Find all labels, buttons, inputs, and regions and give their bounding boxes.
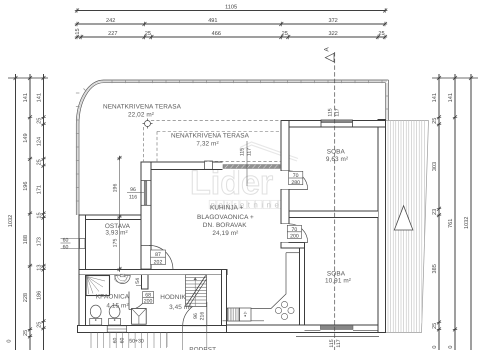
door label 87/202 [151,250,166,265]
terrace drain point [143,119,153,129]
svg-text:60: 60 [63,244,69,250]
svg-text:303: 303 [432,162,438,171]
wall soba west mid [281,190,289,224]
wall kitchen-soba divider [300,248,305,325]
svg-text:149: 149 [23,133,29,142]
room label terasa 7 [171,133,250,148]
svg-text:3,45 m²: 3,45 m² [169,304,191,311]
svg-text:0: 0 [7,339,13,342]
svg-text:KPAONICA: KPAONICA [96,293,130,300]
window kitchen west 96/116 [141,181,151,206]
window soba north 115/117 [321,120,352,127]
svg-text:70: 70 [292,227,298,233]
entry steps hatch [91,333,167,348]
svg-text:25: 25 [36,159,42,165]
dim chain left total 1032 [7,74,49,350]
terrace railing right segment [385,80,389,120]
hatched pergola strip right side [386,121,429,333]
svg-text:761: 761 [448,219,454,228]
svg-text:186: 186 [36,291,42,300]
wall ostava north [79,215,141,219]
dim chain top row2 242/491/372 [75,18,387,26]
window kitchen north [223,161,281,170]
svg-text:96: 96 [130,187,136,193]
shower tray [86,276,110,296]
svg-text:NENATKRIVENA TERASA: NENATKRIVENA TERASA [103,103,182,110]
svg-text:196: 196 [112,184,118,193]
terrace railing gap segments [76,80,382,201]
toilet 1 [90,305,102,325]
interior dim line 196/175 [112,156,121,272]
svg-text:117: 117 [247,148,253,156]
svg-text:466: 466 [212,31,221,37]
svg-text:188: 188 [23,235,29,244]
door label 70/280 [289,171,303,186]
svg-text:4,15 m²: 4,15 m² [106,303,128,310]
room label hodnik [160,294,191,311]
svg-text:0: 0 [432,345,438,348]
watermark text nekretnine [209,200,285,209]
svg-text:322: 322 [328,31,337,37]
svg-text:115: 115 [329,339,335,347]
pier column on north wall [205,161,213,169]
wall bath-hall north [79,270,227,275]
svg-text:70: 70 [293,173,299,179]
svg-text:60: 60 [113,338,119,344]
svg-text:216: 216 [199,312,205,321]
wall west exterior [79,215,86,333]
room label kupaonica [96,293,130,309]
door label 68/200 [143,292,154,305]
svg-text:HODNIK: HODNIK [160,294,186,301]
room label ostava [105,223,131,237]
terrace dashed boundary [144,120,281,161]
label 60/60 ostava window [61,238,71,251]
svg-text:141: 141 [432,93,438,102]
svg-text:0: 0 [448,345,454,348]
svg-text:25: 25 [36,118,42,124]
svg-text:23: 23 [432,209,438,215]
soba north window label 115/117 [328,108,341,116]
toilet 2 [109,305,121,325]
shower tray 2 Y-drain [132,308,147,324]
hob burners [275,301,294,319]
kitchen sink unit [228,308,252,321]
room label podest [189,347,216,350]
dim chain right col1 141/25/303/23/385/25 [432,74,478,350]
svg-text:NENATKRIVENA TERASA: NENATKRIVENA TERASA [171,133,250,140]
svg-text:372: 372 [328,18,337,24]
dim chain left col3 detail [36,74,45,350]
room label soba 9.63 [326,149,348,163]
dim chain top row3 15/227/25/466/25/322/25 [75,28,387,39]
section marker A top [324,47,335,62]
svg-text:227: 227 [108,31,117,37]
door bath 68/200 arc [129,292,147,310]
svg-text:141: 141 [23,93,29,102]
svg-text:116: 116 [129,194,137,200]
soba south window label 115/117 [329,339,342,347]
room label soba 10.91 [325,271,351,285]
window bath south 60 [107,326,126,332]
svg-text:202: 202 [154,259,163,265]
svg-text:87: 87 [155,252,161,258]
svg-text:385: 385 [432,264,438,273]
svg-text:173: 173 [36,237,42,246]
svg-text:280: 280 [291,180,300,186]
door label 70/200 [287,225,301,239]
svg-text:SOBA: SOBA [327,271,346,278]
svg-text:BLAGOVAONICA +: BLAGOVAONICA + [197,214,254,221]
svg-text:117: 117 [336,339,342,347]
svg-text:60: 60 [120,338,126,344]
svg-text:141: 141 [448,93,454,102]
wall between soba rooms [289,211,378,217]
room label kuhinja [197,205,254,238]
window soba south 115/117 [296,325,379,336]
window ostava west 60/60 [61,239,86,249]
svg-text:25: 25 [36,322,42,328]
svg-text:96: 96 [193,313,199,319]
svg-text:15: 15 [36,212,42,218]
svg-text:DN. BORAVAK: DN. BORAVAK [203,222,247,229]
kitchen counter outline [223,253,300,321]
wall jog piece [281,243,305,249]
wall south exterior right [227,325,386,333]
wall kitchen north [141,162,284,169]
svg-text:242: 242 [106,18,115,24]
room label terasa 22 [103,103,182,118]
watermark logo text Lider [190,164,273,202]
svg-text:60: 60 [63,238,69,244]
wall east exterior [378,120,385,333]
bath sink [115,274,131,283]
svg-text:1105: 1105 [225,4,237,10]
svg-text:141: 141 [36,93,42,102]
terrace railing outline [76,80,388,215]
svg-text:PODEST: PODEST [189,347,216,350]
podest landing edges [167,333,207,350]
svg-text:50+30: 50+30 [129,339,144,345]
kitchen window label 115/117 [240,141,253,186]
svg-text:1032: 1032 [8,215,14,227]
svg-text:24,19 m²: 24,19 m² [212,230,238,237]
svg-text:A: A [324,47,331,52]
wall soba west upper [281,121,289,171]
svg-text:200: 200 [290,234,299,240]
svg-text:25: 25 [378,31,384,37]
svg-text:228: 228 [23,293,29,302]
svg-text:68: 68 [145,293,151,299]
svg-text:22,02 m²: 22,02 m² [128,111,154,118]
window label 96/116 [127,187,144,200]
dim label 54 [135,278,142,286]
wall hall-kitchen divider [222,270,227,326]
dim chain right col2 141/761 [448,74,457,350]
section line A-A [334,52,336,350]
door kitchen 87/202 arc [141,245,173,269]
svg-text:25: 25 [145,31,151,37]
svg-text:115: 115 [240,148,246,156]
svg-text:196: 196 [23,181,29,190]
label 60 60 bath window [113,338,126,344]
svg-text:25: 25 [432,323,438,329]
door soba upper 70/280 arc [282,171,308,190]
svg-text:KUHINJA +: KUHINJA + [210,205,244,212]
svg-text:124: 124 [36,137,42,146]
svg-text:491: 491 [208,18,217,24]
dim chain top total 1105 [75,4,388,12]
svg-text:25: 25 [23,330,29,336]
svg-text:175: 175 [112,239,118,248]
wall south exterior left [78,326,228,333]
door soba lower 70/200 arc [282,224,308,243]
wall kitchen west [141,162,151,270]
svg-text:171: 171 [36,185,42,194]
svg-text:54: 54 [135,278,141,284]
entrance door 96/216 arc [183,302,207,332]
svg-text:10,91 m²: 10,91 m² [325,278,351,285]
svg-text:25: 25 [282,31,288,37]
svg-text:3,93 m²: 3,93 m² [105,230,127,237]
wall soba north [281,121,386,128]
svg-text:117: 117 [335,108,341,116]
svg-text:SOBA: SOBA [327,149,346,156]
svg-text:15: 15 [75,28,81,34]
staircase [186,275,207,307]
svg-text:200: 200 [144,299,153,305]
triangle marker right strip [394,206,413,230]
svg-text:115: 115 [328,108,334,116]
svg-text:25: 25 [432,118,438,124]
svg-text:9,63 m²: 9,63 m² [326,156,348,163]
dim chain left col2 141/149/196/188/228/25 [23,74,32,350]
svg-text:13: 13 [36,265,42,271]
dim chain right col3 total 1032 [464,74,473,350]
svg-text:1032: 1032 [464,217,470,229]
svg-text:7,32 m²: 7,32 m² [196,140,218,147]
watermark roof swoosh [240,142,298,161]
wall bath-hall divider stub [142,275,149,289]
label 50+30 [129,339,144,345]
